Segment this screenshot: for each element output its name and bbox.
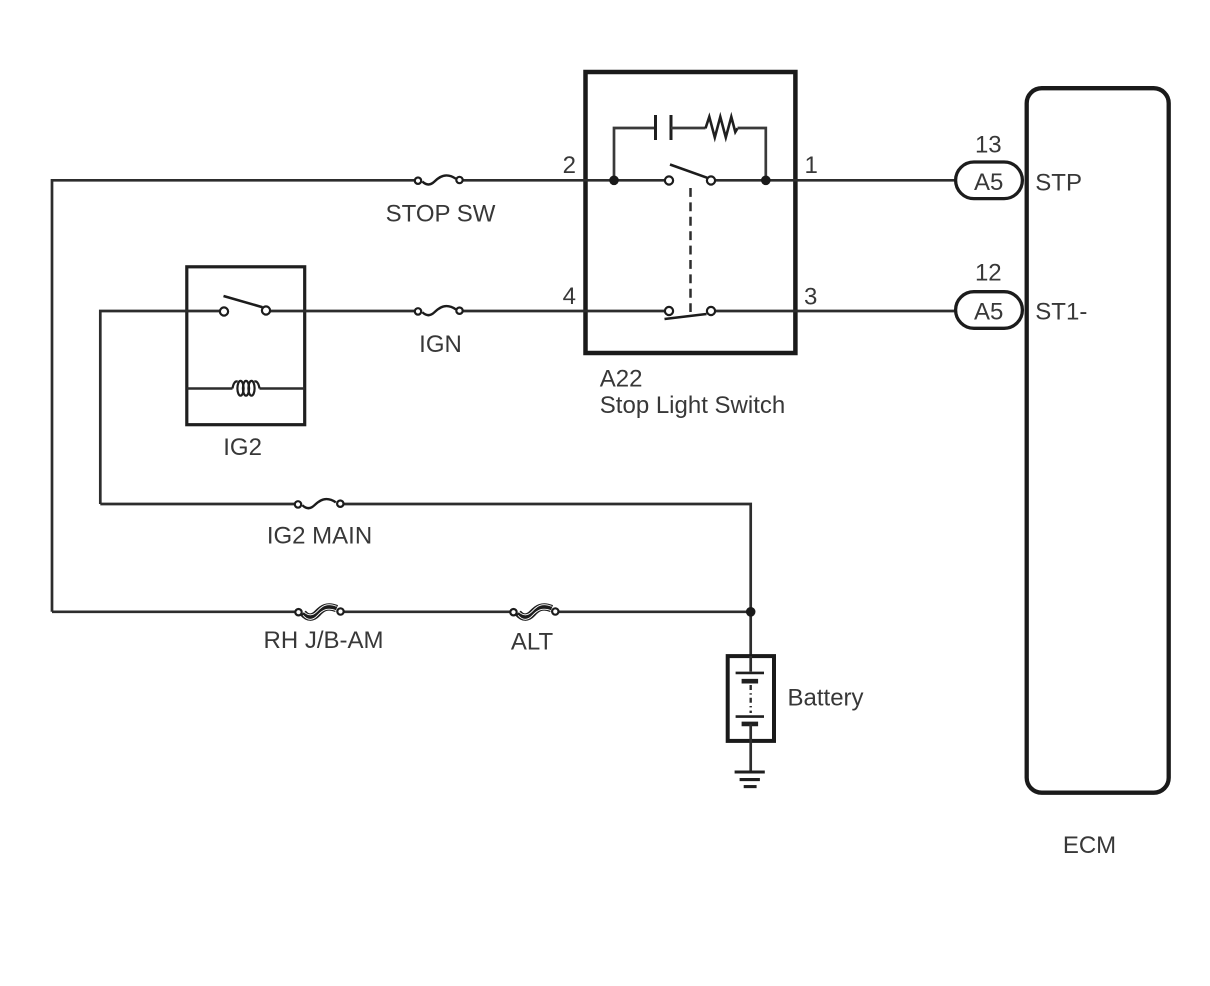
- wire capacitor to resistor: [671, 127, 706, 130]
- connector oval A5 pin12: [956, 292, 1023, 329]
- battery top lead: [749, 656, 752, 672]
- svg-text:IG2 MAIN: IG2 MAIN: [267, 522, 372, 549]
- capacitor C plates: [656, 115, 672, 140]
- wire: RH J/B-AM link to ALT link: [341, 610, 514, 613]
- A22 lower switch blade: [665, 314, 707, 319]
- svg-text:1: 1: [805, 152, 818, 179]
- svg-text:STP: STP: [1035, 170, 1082, 197]
- wire: bottom row left riser to RH J/B-AM link: [52, 610, 299, 613]
- junction dot at battery node: [746, 607, 756, 617]
- wire: IGN fuse to A22 pin4 contact: [460, 310, 670, 313]
- svg-text:ECM: ECM: [1063, 832, 1116, 859]
- connector oval A5 pin13: [956, 162, 1023, 199]
- wire: second riser to IG2 MAIN fuse: [100, 503, 298, 506]
- fuse IG2 MAIN: [295, 499, 344, 508]
- svg-text:Battery: Battery: [788, 685, 864, 712]
- wire: STOP SW fuse to A22 pin2 and switch contact: [460, 179, 670, 182]
- ground symbol: [735, 772, 765, 787]
- wire: IG2 MAIN fuse to battery column: [340, 504, 750, 656]
- IG2 relay coil loops: [233, 381, 260, 396]
- svg-text:A22: A22: [600, 365, 643, 392]
- svg-text:ALT: ALT: [511, 628, 554, 655]
- battery plate short bottom: [742, 722, 759, 727]
- svg-text:2: 2: [563, 152, 576, 179]
- A22 upper switch blade: [670, 165, 707, 178]
- fuse STOP SW: [415, 175, 463, 184]
- wire: A22 pin1 to ECM connector STP: [711, 179, 958, 182]
- capacitor branch wire (left leg and top): [614, 128, 655, 180]
- resistor R zigzag: [706, 117, 738, 138]
- svg-text:4: 4: [563, 283, 576, 310]
- A22 stop light switch box: [586, 72, 796, 353]
- svg-text:13: 13: [975, 131, 1002, 158]
- fuse IGN: [415, 306, 463, 315]
- mechanical link dashed line: [689, 188, 692, 312]
- wire: top row from left riser to STOP SW fuse: [52, 180, 418, 612]
- battery plate long top: [736, 672, 764, 675]
- svg-text:IGN: IGN: [419, 331, 462, 358]
- A22 upper switch contacts: [665, 176, 673, 184]
- wire: A22 pin3 to ECM connector ST1-: [711, 310, 958, 313]
- IG2 relay switch contacts: [220, 307, 228, 315]
- IG2 relay switch blade: [224, 296, 263, 307]
- svg-text:STOP SW: STOP SW: [386, 200, 496, 227]
- battery plate long bottom: [736, 715, 764, 718]
- wire: ALT link to battery node: [555, 610, 750, 613]
- wire: IG2 relay to IGN fuse: [266, 310, 418, 313]
- A22 lower switch contacts: [665, 307, 673, 315]
- IG2 relay coil line: [187, 387, 305, 389]
- svg-text:A5: A5: [974, 169, 1003, 196]
- battery dash-dot center: [750, 685, 752, 713]
- IG2 relay box: [187, 267, 305, 425]
- battery plate short top: [742, 679, 759, 684]
- svg-text:12: 12: [975, 260, 1002, 287]
- resistor branch wire (top right and right leg): [738, 128, 766, 180]
- battery box: [728, 656, 774, 741]
- wire: second riser to IG2 relay contact: [100, 311, 224, 504]
- svg-text:Stop Light Switch: Stop Light Switch: [600, 392, 785, 419]
- fusible link ALT: [510, 605, 558, 620]
- svg-text:RH J/B-AM: RH J/B-AM: [264, 627, 384, 654]
- svg-text:ST1-: ST1-: [1035, 299, 1087, 326]
- fusible link RH J/B-AM: [295, 605, 343, 620]
- battery bottom lead to ground: [749, 724, 752, 772]
- svg-text:IG2: IG2: [223, 434, 262, 461]
- svg-text:3: 3: [804, 283, 817, 310]
- junction dot left of switch: [609, 176, 619, 186]
- svg-text:A5: A5: [974, 299, 1003, 326]
- ECM box: [1027, 88, 1169, 793]
- junction dot right of switch: [761, 176, 771, 186]
